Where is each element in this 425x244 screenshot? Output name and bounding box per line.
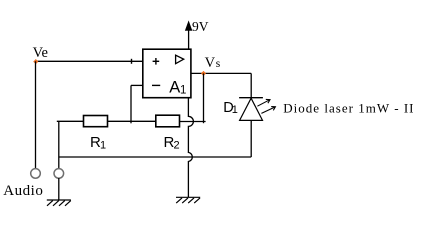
terminal audio ground (right circle) bbox=[54, 169, 64, 179]
resistor R1 bbox=[84, 116, 108, 127]
svg-text:V: V bbox=[205, 55, 216, 71]
svg-text:1: 1 bbox=[100, 139, 106, 151]
ground (op-amp supply) bbox=[176, 197, 200, 203]
junction tick on Ve wire bbox=[131, 59, 133, 64]
svg-text:2: 2 bbox=[174, 139, 180, 151]
node Ve (orange junction dot) bbox=[33, 59, 38, 64]
resistor R2 bbox=[156, 115, 180, 127]
wire R2 output to Vs branch bbox=[180, 121, 206, 123]
svg-text:Ve: Ve bbox=[33, 45, 48, 61]
power 9V wire bbox=[188, 30, 190, 50]
wire Vs vertical down to R2 output bbox=[203, 73, 205, 123]
wire left vertical from R1 down to audio ground terminal bbox=[58, 121, 60, 168]
svg-text:9V: 9V bbox=[192, 19, 209, 34]
wire op-amp V- supply down to ground, hopping over two wires bbox=[188, 98, 193, 198]
terminal audio signal (left circle) bbox=[31, 169, 41, 179]
wire Vs branch down to diode anode bbox=[250, 73, 252, 97]
wire Ve vertical down to audio terminal bbox=[35, 61, 37, 168]
op-amp + input symbol bbox=[153, 60, 160, 62]
wire between R1 and R2 bbox=[108, 120, 156, 122]
wire op-amp inverting input bbox=[131, 84, 143, 86]
wire Ve horizontal to op-amp + input bbox=[35, 60, 143, 62]
svg-text:1: 1 bbox=[180, 85, 186, 97]
wire from audio ground terminal to ground bbox=[58, 178, 60, 200]
wire bottom rail bbox=[59, 156, 251, 158]
wire Vs output horizontal bbox=[191, 72, 251, 74]
op-amp - input symbol bbox=[152, 84, 160, 86]
wire feedback vertical from - input to R1/R2 node bbox=[130, 85, 132, 123]
power 9V arrowhead bbox=[185, 21, 192, 30]
op-amp U A1 box bbox=[143, 49, 191, 97]
wire left of R1 bbox=[57, 120, 84, 122]
laser emission arrow upper bbox=[257, 99, 270, 106]
op-amp gain triangle symbol bbox=[176, 55, 184, 64]
diode D1 triangle bbox=[240, 98, 263, 120]
node Vs (orange junction dot) bbox=[201, 71, 206, 76]
svg-text:s: s bbox=[216, 58, 221, 70]
svg-text:1: 1 bbox=[232, 104, 238, 116]
diode D1 cathode bar bbox=[239, 97, 263, 99]
ground (audio) bbox=[47, 200, 71, 206]
svg-text:Diode laser 1mW - II: Diode laser 1mW - II bbox=[283, 101, 414, 116]
laser emission arrow lower bbox=[261, 107, 275, 114]
wire diode anode down to bottom rail bbox=[250, 120, 252, 157]
svg-text:A: A bbox=[169, 79, 180, 97]
svg-text:Audio: Audio bbox=[3, 183, 43, 199]
